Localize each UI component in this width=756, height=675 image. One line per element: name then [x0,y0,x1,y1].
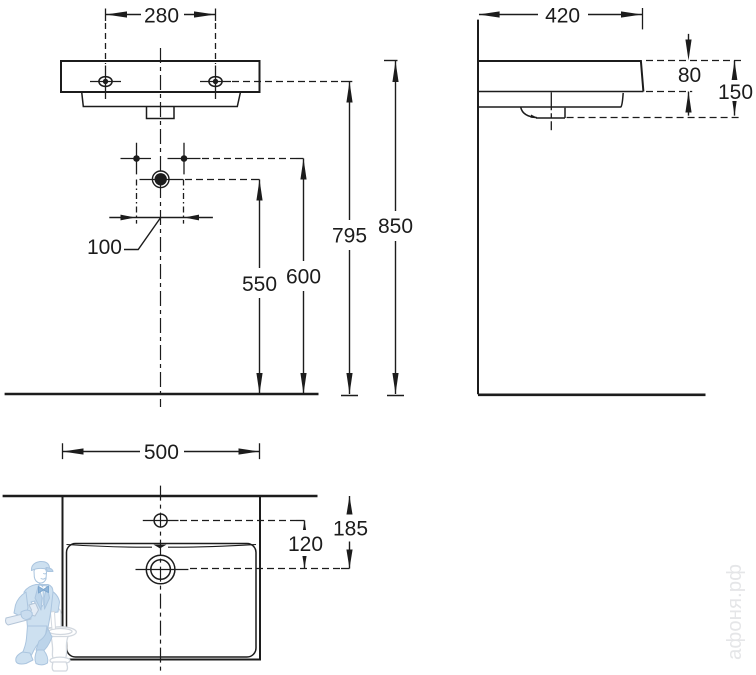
svg-text:афоня.рф: афоня.рф [723,564,746,660]
svg-text:500: 500 [144,441,179,464]
svg-text:420: 420 [545,4,580,27]
svg-text:850: 850 [378,215,413,238]
svg-text:280: 280 [144,4,179,27]
svg-text:550: 550 [242,273,277,296]
svg-text:185: 185 [333,518,368,541]
svg-text:150: 150 [718,81,753,104]
svg-text:120: 120 [288,533,323,556]
svg-text:600: 600 [286,266,321,289]
svg-text:795: 795 [332,225,367,248]
svg-text:100: 100 [87,236,122,259]
svg-text:80: 80 [678,64,701,87]
